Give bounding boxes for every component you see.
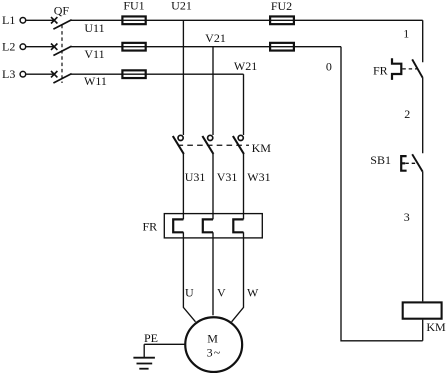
svg-text:0: 0 [326,60,332,74]
svg-text:1: 1 [403,27,409,41]
svg-text:U11: U11 [84,21,104,35]
svg-text:W11: W11 [84,74,107,88]
svg-text:V21: V21 [205,31,226,45]
svg-text:2: 2 [404,107,410,121]
svg-text:M: M [207,332,218,346]
svg-text:~: ~ [214,346,221,360]
svg-text:W31: W31 [247,170,270,184]
svg-text:KM: KM [252,141,272,155]
svg-text:KM: KM [426,320,446,334]
svg-text:FR: FR [373,64,388,78]
svg-text:FR: FR [143,220,158,234]
svg-text:V11: V11 [84,47,104,61]
svg-text:L2: L2 [2,40,15,54]
svg-text:PE: PE [144,331,158,345]
svg-text:L3: L3 [2,67,15,81]
svg-text:W21: W21 [234,59,257,73]
svg-text:U31: U31 [185,170,206,184]
svg-text:QF: QF [54,4,70,18]
svg-text:L1: L1 [2,13,15,27]
svg-text:U21: U21 [171,0,192,12]
svg-text:U: U [185,286,194,300]
svg-text:FU2: FU2 [271,0,292,13]
svg-text:FU1: FU1 [123,0,144,13]
svg-text:SB1: SB1 [370,153,391,167]
svg-text:V: V [217,286,226,300]
svg-text:3: 3 [404,210,410,224]
svg-text:W: W [247,286,259,300]
svg-text:3: 3 [207,346,213,360]
svg-text:V31: V31 [217,170,238,184]
